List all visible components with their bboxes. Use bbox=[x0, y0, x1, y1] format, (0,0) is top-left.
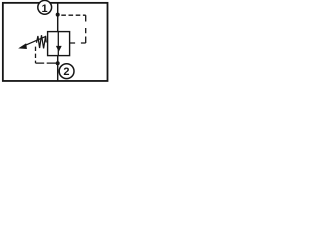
flow path line bbox=[57, 32, 59, 56]
node junction at port 2 bbox=[56, 61, 60, 65]
port label circle 2 bbox=[59, 64, 74, 79]
flow arrowhead bbox=[56, 46, 62, 52]
wire port 1 line bbox=[57, 3, 59, 32]
node junction at port 1 bbox=[56, 13, 60, 17]
pilot line dashed elbow to valve bbox=[70, 42, 86, 44]
svg-text:2: 2 bbox=[63, 66, 69, 78]
svg-text:1: 1 bbox=[42, 3, 48, 15]
adjustment arrowhead bbox=[18, 43, 27, 49]
drain line dashed horizontal bbox=[36, 62, 58, 64]
relief valve square envelope bbox=[48, 32, 70, 56]
wire port 2 line bbox=[57, 56, 59, 81]
spring bbox=[37, 35, 47, 48]
drain line dashed vertical bbox=[35, 47, 37, 64]
adjustment arrow shaft bbox=[24, 37, 46, 46]
pilot line dashed vertical bbox=[85, 15, 87, 43]
port label circle 1 bbox=[38, 0, 52, 14]
valve body outer rectangle bbox=[3, 3, 108, 81]
pilot line dashed horizontal bbox=[61, 14, 85, 16]
